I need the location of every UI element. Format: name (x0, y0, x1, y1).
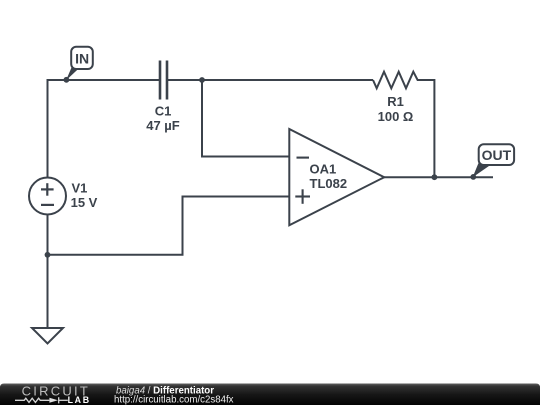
svg-text:47 µF: 47 µF (146, 118, 180, 133)
svg-text:100 Ω: 100 Ω (378, 109, 414, 124)
svg-text:LAB: LAB (68, 395, 91, 405)
svg-text:TL082: TL082 (310, 176, 348, 191)
svg-text:OA1: OA1 (310, 162, 337, 177)
svg-text:IN: IN (75, 51, 89, 67)
svg-text:OUT: OUT (482, 147, 512, 163)
svg-text:V1: V1 (72, 181, 88, 196)
svg-text:R1: R1 (387, 94, 404, 109)
svg-text:C1: C1 (155, 104, 172, 119)
svg-text:15 V: 15 V (71, 195, 98, 210)
svg-text:http://circuitlab.com/c2s84fx: http://circuitlab.com/c2s84fx (114, 395, 234, 405)
